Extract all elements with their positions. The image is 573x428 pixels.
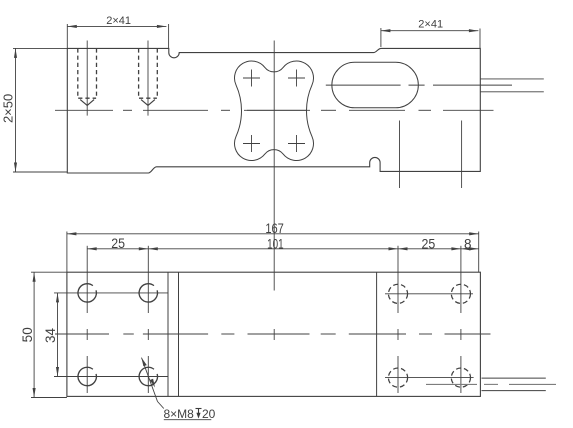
svg-text:8: 8 bbox=[464, 236, 472, 251]
svg-text:20: 20 bbox=[202, 407, 216, 421]
obround slot bbox=[332, 62, 419, 108]
svg-text:50: 50 bbox=[20, 327, 35, 342]
dim 167 bbox=[67, 232, 479, 273]
svg-text:25: 25 bbox=[422, 236, 436, 251]
depth symbol bbox=[196, 409, 202, 418]
clover cutout bbox=[235, 61, 314, 160]
left block holes bbox=[78, 284, 158, 386]
right block holes (threaded, broken circles) bbox=[388, 284, 470, 387]
dim 2x41 top-right bbox=[381, 28, 480, 48]
bottom view rectangle bbox=[67, 272, 481, 396]
pocket line right (side view) bbox=[461, 121, 463, 189]
hole column lines bbox=[87, 246, 461, 393]
svg-text:101: 101 bbox=[267, 237, 284, 252]
dim row 25 / 101 / 25 / 8 bbox=[87, 248, 479, 250]
obround centerline bbox=[326, 84, 512, 86]
leader for 8xM8 label bbox=[142, 358, 158, 402]
svg-text:25: 25 bbox=[111, 236, 125, 251]
dim 50 left of bottom view bbox=[31, 272, 67, 397]
svg-text:34: 34 bbox=[43, 328, 58, 344]
svg-text:8×M8: 8×M8 bbox=[164, 407, 195, 421]
main horizontal centerline of side view bbox=[55, 109, 113, 111]
hidden threaded hole left (side view) bbox=[78, 48, 97, 98]
hole 1 axis line bbox=[86, 41, 88, 116]
dim 2x41 top-left bbox=[67, 24, 168, 48]
clover circle crosshairs bbox=[243, 70, 307, 153]
bottom view horizontal centerline bbox=[55, 333, 109, 335]
hidden threaded hole right (side view) bbox=[139, 48, 158, 98]
svg-text:2×50: 2×50 bbox=[1, 94, 16, 123]
dim 2x50 left side bbox=[13, 48, 67, 172]
underline of label bbox=[164, 419, 212, 421]
svg-text:2×41: 2×41 bbox=[106, 15, 131, 27]
svg-text:2×41: 2×41 bbox=[418, 19, 443, 31]
inner edge lines (notch projections) bbox=[167, 272, 169, 396]
svg-text:167: 167 bbox=[265, 221, 284, 236]
hole 2 axis line bbox=[147, 41, 149, 116]
pocket line left (side view) bbox=[399, 121, 401, 189]
right block edge bbox=[376, 272, 378, 396]
vertical centerline connecting views bbox=[273, 41, 275, 291]
cable in bottom view bbox=[482, 377, 546, 379]
top view outline bbox=[67, 48, 480, 173]
dim 34 bbox=[57, 293, 59, 377]
cable in side view bbox=[480, 78, 544, 80]
hole row lines bbox=[54, 293, 474, 378]
center column tick in bottom view bbox=[273, 329, 275, 340]
